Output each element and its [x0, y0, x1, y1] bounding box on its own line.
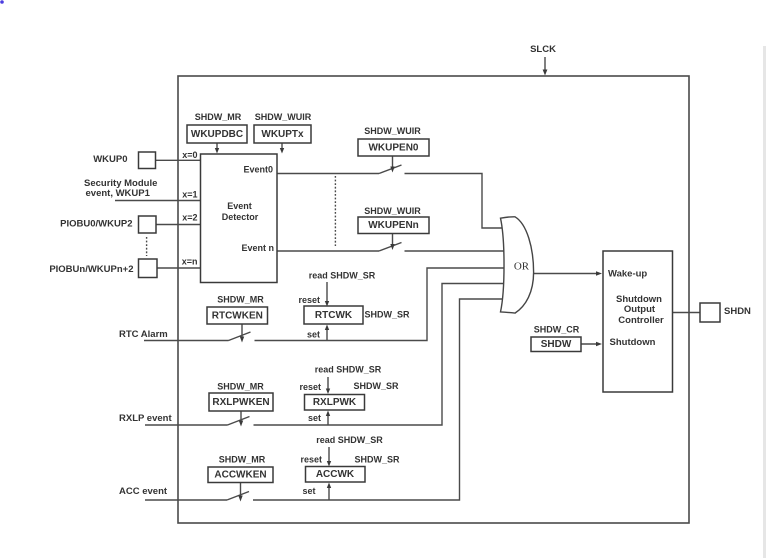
- svg-text:RXLPWK: RXLPWK: [313, 397, 357, 408]
- svg-text:SHDW_MR: SHDW_MR: [217, 295, 264, 305]
- svg-text:Detector: Detector: [222, 212, 259, 222]
- svg-text:PIOBUn/WKUPn+2: PIOBUn/WKUPn+2: [49, 264, 133, 275]
- svg-text:SHDN: SHDN: [724, 306, 751, 317]
- svg-text:Event: Event: [227, 201, 252, 211]
- svg-text:SHDW_WUIR: SHDW_WUIR: [255, 112, 312, 122]
- svg-text:RXLPWKEN: RXLPWKEN: [212, 397, 269, 408]
- svg-text:SHDW_CR: SHDW_CR: [534, 325, 580, 335]
- svg-text:SHDW_SR: SHDW_SR: [354, 381, 400, 391]
- svg-text:RXLP event: RXLP event: [119, 413, 172, 424]
- svg-text:set: set: [302, 486, 315, 496]
- svg-text:SHDW_SR: SHDW_SR: [365, 310, 411, 320]
- svg-text:Output: Output: [624, 304, 656, 315]
- svg-text:PIOBU0/WKUP2: PIOBU0/WKUP2: [60, 219, 132, 230]
- svg-text:SHDW: SHDW: [541, 339, 572, 350]
- svg-text:Shutdown: Shutdown: [610, 337, 656, 348]
- svg-text:Event0: Event0: [243, 165, 273, 175]
- svg-text:Event n: Event n: [241, 243, 274, 253]
- svg-text:set: set: [308, 413, 321, 423]
- svg-text:WKUPDBC: WKUPDBC: [191, 129, 243, 140]
- svg-text:reset: reset: [300, 455, 322, 465]
- svg-text:ACCWKEN: ACCWKEN: [214, 470, 266, 481]
- svg-text:Wake-up: Wake-up: [608, 269, 647, 280]
- svg-text:SHDW_MR: SHDW_MR: [219, 455, 266, 465]
- svg-text:SHDW_SR: SHDW_SR: [355, 455, 401, 465]
- svg-text:SHDW_WUIR: SHDW_WUIR: [364, 206, 421, 216]
- svg-text:set: set: [307, 330, 320, 340]
- svg-text:read SHDW_SR: read SHDW_SR: [315, 365, 382, 375]
- svg-text:OR: OR: [514, 261, 530, 273]
- svg-text:WKUPTx: WKUPTx: [261, 129, 304, 140]
- svg-text:x=n: x=n: [182, 257, 198, 267]
- svg-text:SHDW_MR: SHDW_MR: [217, 382, 264, 392]
- svg-text:event, WKUP1: event, WKUP1: [86, 188, 151, 199]
- svg-text:WKUPENn: WKUPENn: [368, 220, 419, 231]
- svg-text:SLCK: SLCK: [530, 44, 556, 55]
- svg-text:RTC Alarm: RTC Alarm: [119, 329, 168, 340]
- svg-text:reset: reset: [299, 382, 321, 392]
- svg-text:read SHDW_SR: read SHDW_SR: [309, 271, 376, 281]
- svg-text:ACCWK: ACCWK: [316, 469, 355, 480]
- svg-text:RTCWK: RTCWK: [315, 310, 353, 321]
- svg-text:WKUPEN0: WKUPEN0: [368, 143, 418, 154]
- svg-text:reset: reset: [298, 295, 320, 305]
- svg-text:SHDW_MR: SHDW_MR: [195, 112, 242, 122]
- svg-text:x=1: x=1: [182, 190, 197, 200]
- svg-text:read SHDW_SR: read SHDW_SR: [316, 435, 383, 445]
- svg-text:ACC event: ACC event: [119, 486, 168, 497]
- svg-text:SHDW_WUIR: SHDW_WUIR: [364, 126, 421, 136]
- svg-text:Controller: Controller: [618, 315, 664, 326]
- svg-text:x=2: x=2: [182, 213, 197, 223]
- svg-text:RTCWKEN: RTCWKEN: [212, 311, 263, 322]
- svg-text:WKUP0: WKUP0: [93, 154, 127, 165]
- svg-text:x=0: x=0: [182, 150, 197, 160]
